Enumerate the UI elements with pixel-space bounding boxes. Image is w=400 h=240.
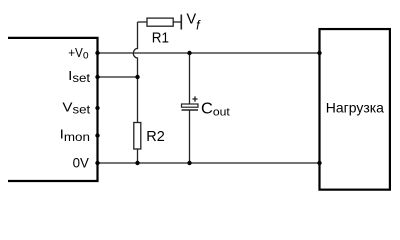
svg-text:Iset: Iset <box>68 69 91 85</box>
svg-text:0V: 0V <box>73 155 90 170</box>
wire R2 bottom lead <box>137 149 139 163</box>
terminal bar Vf <box>180 15 182 30</box>
wire R1 left lead vertical with hop over +Vo bus <box>133 22 137 123</box>
svg-text:Imon: Imon <box>60 127 90 143</box>
svg-text:R2: R2 <box>146 129 165 145</box>
wire 0V bus <box>98 162 320 164</box>
junction dot Cout top <box>187 51 191 55</box>
svg-text:Нагрузка: Нагрузка <box>326 101 385 116</box>
junction dot +Vo pin <box>95 51 99 55</box>
junction dot Iset pin <box>95 75 99 79</box>
pin label 0V <box>73 155 90 170</box>
load label Нагрузка <box>326 101 385 116</box>
wire Iset to R2 branch <box>98 76 138 78</box>
wire Cout bottom lead <box>189 110 191 163</box>
label R1 <box>152 29 169 46</box>
junction dot Cout bottom <box>187 161 191 165</box>
label Cout <box>201 101 230 119</box>
junction dot R2 to 0V bus <box>135 161 139 165</box>
terminal label Vf <box>187 12 202 33</box>
junction dot Imon pin <box>95 133 99 137</box>
capacitor Cout <box>182 96 199 110</box>
resistor R2 <box>134 123 141 150</box>
junction dot load 0V <box>317 161 321 165</box>
wire Cout top lead <box>189 53 191 104</box>
junction dot 0V pin <box>95 161 99 165</box>
svg-text:Vset: Vset <box>62 100 90 116</box>
junction dot Vset pin <box>95 106 99 110</box>
pin label Imon <box>60 127 90 143</box>
svg-text:+Vo: +Vo <box>68 45 88 61</box>
regulator box (left, cropped) <box>8 38 98 181</box>
resistor R1 <box>147 18 173 26</box>
svg-text:R1: R1 <box>152 29 169 46</box>
wire R1 left stub <box>138 21 148 23</box>
load box <box>320 29 390 190</box>
pin label +Vo <box>68 45 88 61</box>
svg-text:Vf: Vf <box>187 12 202 33</box>
wire R1 right stub <box>173 21 181 23</box>
pin label Iset <box>68 69 91 85</box>
junction dot Iset/R1 branch <box>135 75 139 79</box>
wire +Vo bus <box>98 52 320 54</box>
svg-text:Cout: Cout <box>201 101 230 119</box>
label R2 <box>146 129 165 145</box>
pin label Vset <box>62 100 90 116</box>
junction dot load +V <box>317 51 321 55</box>
